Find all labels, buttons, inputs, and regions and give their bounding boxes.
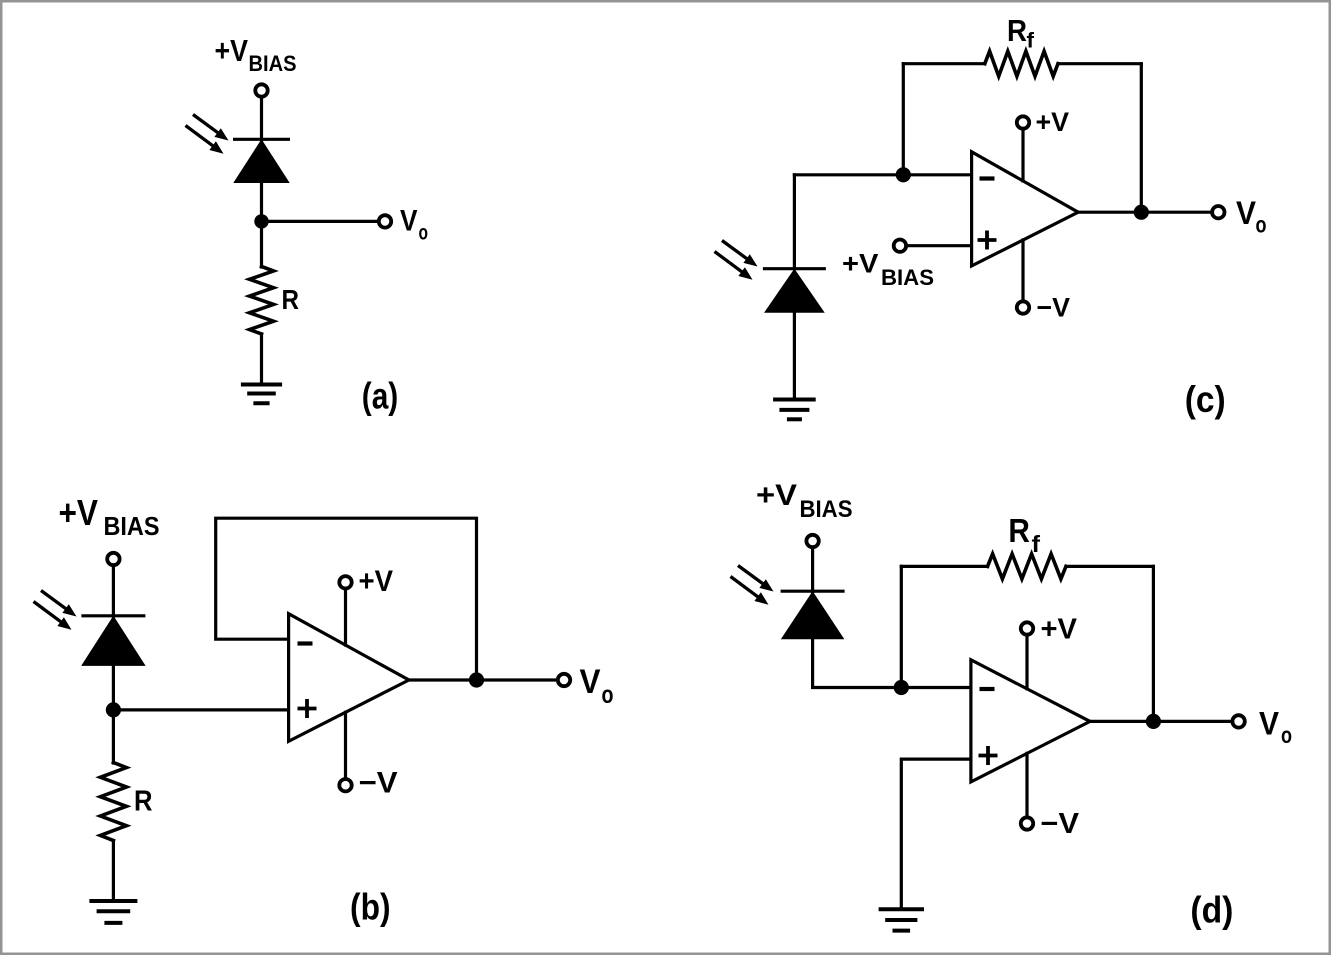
svg-text:−V: −V — [359, 767, 398, 800]
svg-text:+V: +V — [756, 479, 797, 512]
svg-text:(a): (a) — [362, 376, 399, 417]
svg-text:R: R — [134, 786, 153, 818]
svg-text:V: V — [1236, 195, 1257, 231]
svg-text:R: R — [1007, 13, 1027, 48]
svg-text:+V: +V — [1036, 107, 1070, 137]
svg-text:o: o — [1256, 212, 1267, 238]
svg-text:o: o — [1281, 722, 1292, 748]
svg-text:+V: +V — [1041, 614, 1078, 646]
svg-text:−V: −V — [1041, 808, 1080, 840]
svg-text:V: V — [580, 663, 601, 701]
svg-text:BIAS: BIAS — [249, 51, 297, 76]
svg-text:−V: −V — [1037, 293, 1071, 323]
svg-text:o: o — [602, 681, 614, 709]
svg-text:f: f — [1032, 531, 1041, 557]
svg-text:BIAS: BIAS — [104, 511, 160, 541]
svg-text:(d): (d) — [1190, 889, 1233, 930]
svg-text:f: f — [1027, 30, 1036, 53]
svg-text:(c): (c) — [1185, 379, 1226, 420]
svg-text:V: V — [400, 205, 418, 238]
svg-text:+V: +V — [359, 565, 394, 598]
svg-text:R: R — [282, 284, 300, 315]
svg-text:R: R — [1008, 512, 1030, 549]
svg-text:BIAS: BIAS — [881, 265, 934, 290]
svg-text:V: V — [1259, 706, 1280, 742]
svg-text:+V: +V — [59, 492, 99, 533]
svg-text:+V: +V — [215, 33, 249, 68]
svg-text:o: o — [419, 222, 429, 245]
svg-text:(b): (b) — [350, 887, 391, 928]
svg-text:BIAS: BIAS — [800, 496, 853, 523]
svg-text:+V: +V — [842, 249, 878, 279]
